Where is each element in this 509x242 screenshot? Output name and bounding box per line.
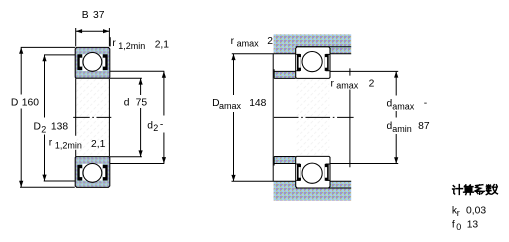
svg-text:D: D [11, 98, 18, 109]
svg-text:2: 2 [153, 123, 158, 133]
svg-text:160: 160 [22, 98, 39, 109]
svg-text:r: r [331, 78, 335, 89]
svg-text:0: 0 [456, 222, 461, 232]
svg-text:1,2min: 1,2min [118, 41, 145, 51]
svg-text:138: 138 [51, 122, 68, 133]
svg-text:87: 87 [418, 121, 430, 132]
svg-text:r: r [457, 208, 460, 218]
svg-text:2: 2 [369, 79, 375, 90]
svg-text:2,1: 2,1 [91, 139, 106, 150]
svg-text:f: f [452, 220, 455, 231]
svg-text:2: 2 [41, 124, 46, 134]
svg-text:B: B [82, 10, 89, 21]
svg-text:-: - [160, 120, 163, 131]
svg-text:75: 75 [136, 97, 148, 108]
svg-text:amin: amin [392, 124, 412, 134]
svg-text:r: r [49, 137, 53, 148]
svg-text:2,1: 2,1 [155, 39, 170, 50]
svg-text:2: 2 [267, 36, 273, 47]
svg-text:D: D [34, 122, 41, 133]
svg-text:148: 148 [249, 98, 266, 109]
svg-text:amax: amax [237, 38, 260, 48]
svg-text:r: r [231, 36, 235, 47]
svg-text:13: 13 [467, 220, 479, 231]
svg-text:-: - [424, 98, 427, 109]
svg-text:d: d [124, 97, 130, 108]
svg-text:0,03: 0,03 [466, 206, 486, 217]
svg-text:37: 37 [93, 10, 105, 21]
svg-text:amax: amax [336, 81, 359, 91]
svg-text:r: r [112, 38, 116, 49]
svg-text:amax: amax [219, 101, 242, 111]
svg-text:1,2min: 1,2min [55, 140, 82, 150]
svg-text:amax: amax [392, 102, 415, 112]
